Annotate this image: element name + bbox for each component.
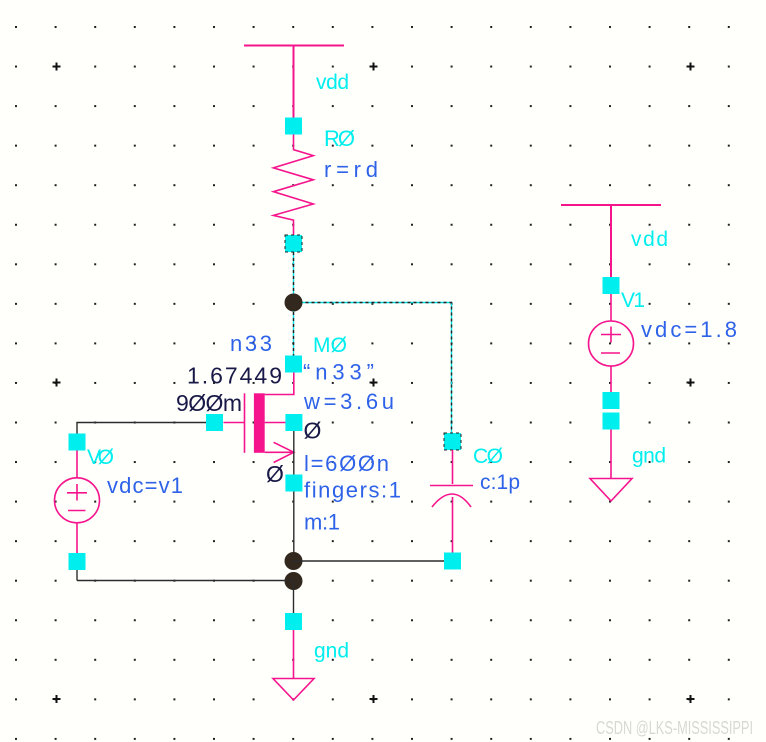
- M0 source arrow: [274, 442, 294, 462]
- origin cross markers: [53, 63, 695, 704]
- svg-text:c:1p: c:1p: [480, 471, 520, 494]
- svg-text:MØ: MØ: [313, 334, 347, 357]
- pin square M0 gate: [206, 414, 223, 431]
- pin square M0 drain: [285, 356, 302, 373]
- wire V0 minus to gnd wire: [76, 570, 78, 581]
- svg-text:vdc=v1: vdc=v1: [107, 473, 183, 498]
- svg-text:n33: n33: [230, 331, 272, 356]
- pin square M0 source: [285, 475, 302, 492]
- transistor M0: [206, 356, 302, 492]
- wire bulk to source (black): [293, 431, 295, 475]
- pin square V0 plus: [69, 434, 86, 451]
- wire V0 bottom to gnd node: [77, 580, 294, 582]
- svg-text:Ø: Ø: [304, 418, 322, 444]
- junction dot gnd net lower: [285, 572, 303, 590]
- vdd symbol (main branch): [244, 46, 344, 118]
- voltage source V0: [55, 451, 100, 554]
- wire net n33 vertical (selected, dashed): [293, 252, 295, 356]
- pin square R0 minus (selected): [285, 235, 302, 252]
- pin square R0 plus: [285, 118, 302, 135]
- pin square M0 bulk: [285, 414, 302, 431]
- wire V0 to M0 gate (black): [77, 423, 206, 434]
- M0 gate plate: [244, 393, 246, 453]
- gnd symbol (main): [273, 630, 314, 700]
- M0 drain lead: [265, 373, 294, 395]
- M0 bulk lead: [265, 422, 286, 424]
- svg-text:vdd: vdd: [631, 228, 668, 251]
- pin square V1 plus: [603, 277, 620, 294]
- svg-text:Ø: Ø: [266, 461, 284, 487]
- M0 gate lead: [224, 422, 245, 424]
- svg-text:gnd: gnd: [632, 445, 666, 468]
- pin square V0 minus: [69, 553, 86, 570]
- svg-text:vdd: vdd: [316, 71, 349, 94]
- junction node n33: [285, 294, 303, 312]
- svg-text:VØ: VØ: [87, 446, 114, 469]
- svg-text:l=6ØØn: l=6ØØn: [304, 451, 389, 476]
- pin square V1 minus: [603, 392, 620, 409]
- wire gnd node down: [293, 581, 295, 613]
- svg-text:m:1: m:1: [304, 510, 340, 535]
- M0 source lead: [265, 451, 294, 453]
- capacitor C0: [430, 450, 473, 553]
- pin square gnd (right): [603, 413, 620, 430]
- wire gnd node to C0 bottom: [294, 560, 445, 562]
- pin square gnd (main): [285, 613, 302, 630]
- wire net n33 to C0 (selected, dashed): [294, 303, 452, 434]
- svg-text:RØ: RØ: [324, 126, 355, 151]
- wire source to ground node (black): [293, 492, 295, 554]
- M0 channel bar: [254, 393, 265, 453]
- resistor R0: [273, 135, 313, 236]
- pin square C0 bottom: [444, 553, 461, 570]
- vdd symbol (right branch): [561, 205, 661, 277]
- svg-text:fingers:1: fingers:1: [304, 478, 401, 503]
- gnd symbol (right): [590, 430, 632, 502]
- svg-text:gnd: gnd: [314, 640, 349, 663]
- svg-text:CSDN @LKS-MISSISSIPPI: CSDN @LKS-MISSISSIPPI: [596, 718, 753, 738]
- pin square C0 top (selected): [444, 433, 461, 450]
- voltage source V1: [589, 294, 634, 392]
- svg-text:V1: V1: [621, 289, 645, 312]
- junction dot gnd net upper: [285, 552, 303, 570]
- svg-text:9ØØm: 9ØØm: [176, 390, 242, 416]
- svg-text:CØ: CØ: [473, 445, 503, 468]
